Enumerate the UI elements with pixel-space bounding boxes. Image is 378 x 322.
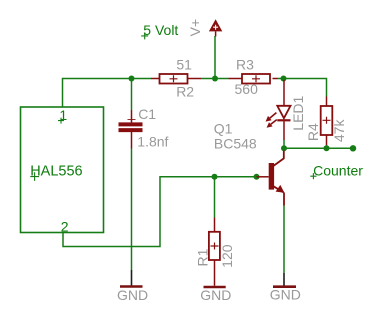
node: junction R4 bottom [324, 145, 330, 151]
svg-text:HAL556: HAL556 [30, 164, 82, 180]
svg-text:5 Volt: 5 Volt [143, 22, 178, 38]
LED LED1 [277, 80, 290, 140]
label 5 Volt origin cross [141, 33, 148, 40]
svg-text:560: 560 [235, 81, 259, 97]
wire: R4 bottom green stub [326, 145, 328, 148]
label HAL556 origin cross [30, 172, 39, 181]
svg-text:47k: 47k [331, 119, 347, 143]
wire: emitter down to GND3 [283, 206, 285, 274]
power V+ supply arrow [209, 19, 222, 36]
wire: HAL556 pin1 up and right to junction [63, 79, 132, 108]
ground GND3 [273, 273, 296, 287]
resistor R1 [209, 218, 220, 286]
node: junction collector-LED [281, 145, 287, 151]
wire: LED junction right and down to R4 top [284, 79, 327, 97]
wire: V+ symbol down to top rail [214, 36, 216, 79]
ground GND2 [204, 286, 226, 289]
resistor R4 [321, 97, 333, 146]
LED1 light emission arrows [266, 113, 277, 128]
node: junction base rail at Q1 base [254, 174, 260, 180]
transistor Q1 [257, 151, 285, 206]
label Counter origin cross [310, 173, 316, 179]
wire: R3 right pin to LED junction [278, 78, 284, 80]
svg-text:51: 51 [176, 57, 192, 73]
svg-text:1: 1 [59, 107, 67, 123]
svg-text:120: 120 [219, 244, 235, 268]
svg-text:R2: R2 [176, 83, 194, 99]
svg-text:2: 2 [61, 218, 69, 234]
svg-text:LED1: LED1 [290, 95, 306, 130]
node: Counter wire end [350, 145, 356, 151]
svg-text:C1: C1 [138, 106, 156, 122]
svg-text:Counter: Counter [313, 162, 363, 178]
svg-text:Q1: Q1 [214, 121, 233, 137]
svg-text:BC548: BC548 [214, 136, 257, 152]
svg-text:R4: R4 [305, 123, 321, 141]
ground GND1 [120, 270, 143, 287]
wire: C1 top connection [131, 79, 133, 111]
svg-text:V+: V+ [187, 19, 203, 37]
resistor R3 [229, 74, 278, 84]
svg-text:R1: R1 [194, 248, 210, 266]
node: junction at V+ drop [212, 76, 218, 82]
wire: R2 right pin to R3 [201, 78, 229, 80]
wire: HAL556 pin2 down, right, up to base rail [63, 177, 257, 247]
capacitor C1 [119, 110, 143, 149]
pin 1 cross [58, 118, 64, 124]
IC U1 HAL556 box [21, 107, 104, 233]
svg-text:1.8nf: 1.8nf [137, 134, 168, 150]
node: junction base rail at R1 [212, 174, 218, 180]
svg-text:R3: R3 [236, 56, 254, 72]
wire: collector bus LED R4 to Counter [284, 147, 353, 149]
svg-text:GND: GND [200, 287, 231, 303]
wire: junction to R2 left pin [132, 78, 152, 80]
svg-text:GND: GND [117, 287, 148, 303]
wire: LED bottom green stub [283, 140, 285, 148]
wire: C1 branch to GND1 [131, 247, 133, 271]
wire: C1 bottom down to bottom bus [131, 149, 133, 247]
resistor R2 [151, 74, 201, 84]
node: junction at LED top [281, 76, 287, 82]
node: junction at C1 top [129, 76, 135, 82]
svg-text:GND: GND [270, 286, 301, 302]
wire: R1 top connection [214, 177, 216, 218]
